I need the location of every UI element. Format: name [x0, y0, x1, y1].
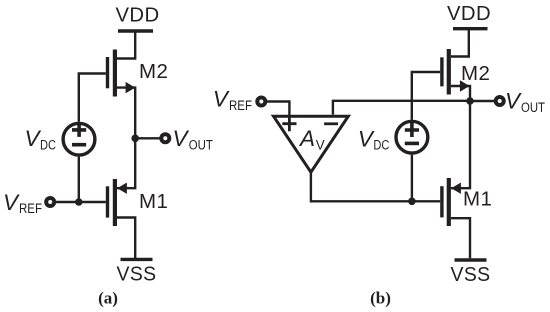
svg-text:REF: REF: [19, 201, 42, 216]
voltage source VDC circle (b): [396, 121, 428, 153]
svg-text:OUT: OUT: [189, 137, 213, 152]
wire op-amp - input to VOUT node, feedback (b): [333, 101, 470, 115]
op-amp plus input sign (b): [282, 116, 296, 132]
label AV op-amp gain (b): [298, 126, 325, 152]
svg-text:M2: M2: [139, 60, 168, 83]
junction VDC to gate wire (b): [408, 198, 416, 206]
svg-text:M2: M2: [461, 62, 490, 85]
transistor M2 channel bar (b): [447, 49, 451, 95]
VSS rail bar (a): [121, 258, 153, 261]
wire VDD to M2 source (b): [451, 29, 469, 57]
op-amp minus input sign (b): [324, 122, 338, 125]
svg-text:M1: M1: [463, 188, 492, 211]
terminal VREF (a): [46, 198, 54, 206]
wire VDC bottom to VREF node (a): [78, 157, 80, 202]
terminal VREF (b): [257, 98, 265, 106]
label VDC (a): [25, 126, 57, 153]
VSS rail bar (b): [455, 258, 487, 261]
wire M2 gate to VDC top (b): [412, 72, 440, 120]
junction VOUT node (a): [131, 135, 139, 143]
label VOUT (a): [173, 126, 213, 152]
transistor M1 drain arrow (a): [117, 183, 127, 194]
junction VOUT node (b): [466, 97, 474, 105]
wire VDC bottom to M1 gate wire (b): [411, 155, 413, 202]
VDC minus sign (a): [72, 143, 86, 147]
label VREF (b): [213, 87, 252, 113]
svg-text:V: V: [25, 126, 42, 151]
wire VOUT node to terminal (a): [135, 137, 161, 139]
wire VDD to M2 source (a): [116, 31, 135, 59]
transistor M1 gate bar (b): [440, 186, 443, 217]
wire VREF terminal to M1 gate (a): [53, 201, 106, 203]
transistor M2 gate bar (a): [106, 57, 109, 88]
wire M1 source to VSS (b): [451, 218, 470, 258]
svg-text:(b): (b): [370, 289, 391, 308]
wire M2 gate to VDC top (a): [79, 74, 106, 122]
VDC minus sign (b): [405, 142, 419, 146]
svg-text:(a): (a): [98, 289, 118, 308]
wire M2 drain down through VOUT node to M1 drain (b): [451, 86, 470, 188]
transistor M1 drain arrow (b): [451, 183, 461, 194]
svg-text:V: V: [213, 87, 230, 112]
wire M1 source to VSS (a): [117, 218, 135, 259]
svg-text:VSS: VSS: [451, 263, 491, 286]
wire op-amp output to M1 gate (b): [311, 172, 440, 201]
wire M2 drain to M1 drain via VOUT node (a): [117, 88, 135, 189]
svg-text:V: V: [3, 190, 20, 215]
svg-text:OUT: OUT: [521, 100, 545, 115]
svg-text:V: V: [505, 89, 522, 114]
VDD power rail bar (b): [453, 27, 488, 30]
svg-text:VSS: VSS: [117, 263, 157, 286]
terminal VOUT (b): [496, 97, 504, 105]
transistor M1 channel bar (a): [113, 179, 117, 226]
svg-text:M1: M1: [139, 190, 168, 213]
transistor M1 gate bar (a): [106, 186, 109, 217]
label VDC (b): [358, 126, 390, 152]
voltage source VDC circle (a): [63, 123, 95, 155]
svg-text:REF: REF: [229, 98, 252, 113]
transistor M1 channel bar (b): [447, 178, 451, 226]
wire VREF to op-amp + input (b): [264, 102, 289, 132]
op-amp U1 triangle (b): [274, 116, 349, 172]
VDC plus sign (a): [72, 123, 86, 137]
terminal VOUT (a): [161, 134, 169, 142]
junction VREF node (a): [75, 198, 83, 206]
transistor M2 channel bar (a): [113, 50, 117, 97]
transistor M2 source arrow (a): [126, 82, 136, 93]
VDD power rail bar (a): [118, 29, 153, 32]
svg-text:A: A: [298, 126, 315, 151]
svg-text:V: V: [173, 126, 190, 151]
svg-text:VDD: VDD: [447, 2, 491, 25]
transistor M2 source arrow (b): [460, 80, 470, 91]
svg-text:VDD: VDD: [116, 4, 160, 27]
svg-text:DC: DC: [40, 137, 56, 152]
label VOUT (b): [505, 89, 545, 115]
svg-text:DC: DC: [373, 138, 389, 153]
transistor M2 gate bar (b): [440, 57, 443, 86]
svg-text:V: V: [358, 126, 375, 151]
label VREF (a): [3, 190, 42, 216]
wire VOUT node to terminal (b): [470, 100, 496, 102]
svg-text:V: V: [316, 137, 325, 152]
VDC plus sign (b): [405, 123, 419, 137]
